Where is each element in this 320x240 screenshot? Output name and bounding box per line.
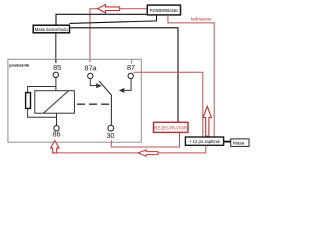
relay coil wire top: 85 to coil [55,78,57,91]
wire: black L1 powerbank to masa box [56,14,147,25]
wire: red powerbank bottom to ladowanie line [168,15,214,141]
pin 85 circle [53,72,58,77]
wire: red pin30 to rejestrator [111,133,179,148]
svg-text:87: 87 [127,63,135,72]
wire: coil bottom to pin 86 [56,113,58,125]
svg-text:86: 86 [52,129,60,138]
pin 87 circle [128,73,133,78]
relay outer box [8,59,141,142]
resistor R (parallel) [26,93,31,109]
wire: red powerbank-to-87a line [90,9,147,62]
red arrow left on bottom rail [138,150,158,156]
wire: masa box down to pin 85 [55,33,57,63]
red arrow up under pin 86 [51,141,60,153]
connector to Masa box [224,141,231,143]
arrow left (charging direction, top) [98,5,120,13]
wire: red bottom rail [55,145,206,153]
contact 87a hook with arrow [90,79,96,86]
contact 87 hook with arrow [124,79,131,91]
svg-text:30: 30 [106,131,114,140]
svg-text:87a: 87a [84,63,97,72]
svg-text:przekaźnik: przekaźnik [9,63,30,68]
label box: Masa [231,139,249,147]
svg-text:85: 85 [53,63,61,72]
svg-text:ładowanie: ładowanie [191,17,212,22]
pin 85 stub [55,59,57,63]
component box: REJESTRATOR [154,122,189,132]
pin 30 circle [108,125,114,131]
svg-text:POWERBANK: POWERBANK [150,8,179,13]
wire: black L3 masa box to rejestrator [70,28,179,123]
svg-text:REJESTRATOR: REJESTRATOR [154,126,188,131]
label box: Masa samochodu [33,25,69,33]
pin 87a circle [88,73,93,78]
component box: +12 po zaplonie [185,137,223,145]
dashed actuation line [77,103,109,105]
red arrow up (big, right) [203,106,211,136]
wire: red pin87 to +12 box [134,72,203,140]
pin 86 circle [54,126,59,131]
pin 87 stub [130,59,132,63]
switch arm [99,81,111,125]
svg-text:Masa: Masa [233,141,245,146]
component box: POWERBANK [147,5,180,15]
wire: black L2 masa box to powerbank bottom [70,15,157,23]
svg-text:+ 12 po zapłonie: + 12 po zapłonie [189,139,221,144]
svg-text:Masa samochodu: Masa samochodu [35,27,69,32]
relay coil [35,91,75,114]
resistor branch [28,87,57,118]
